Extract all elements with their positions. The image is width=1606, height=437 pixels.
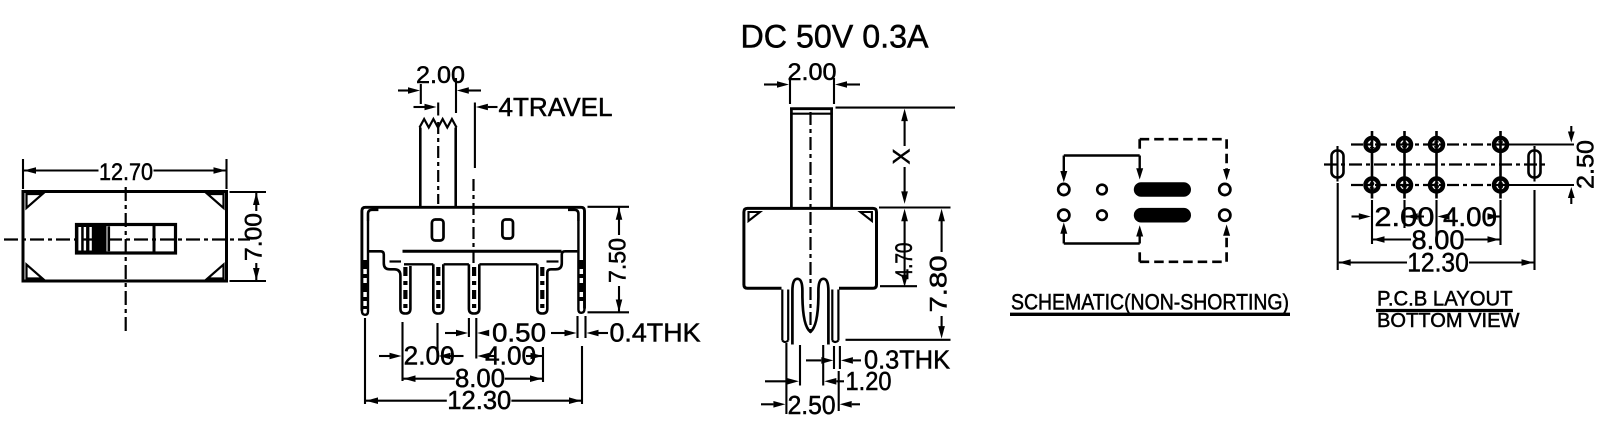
travel extension line bbox=[474, 103, 476, 169]
corner mark bottom-left bbox=[27, 265, 43, 279]
dim 12.70 line and arrows bbox=[24, 169, 99, 171]
actuator walls bbox=[790, 109, 793, 208]
svg-text:BOTTOM VIEW: BOTTOM VIEW bbox=[1377, 309, 1520, 332]
center line bbox=[809, 112, 811, 333]
dim 2.50 arrows bbox=[761, 403, 773, 405]
dashed box left stubs bbox=[1138, 139, 1141, 153]
svg-text:2.00: 2.00 bbox=[416, 62, 465, 89]
right side pin inner wall bbox=[577, 221, 579, 310]
solid wire top bbox=[1064, 154, 1140, 156]
terminal circle right bottom bbox=[1219, 210, 1230, 221]
ext line actuator top right bbox=[836, 107, 956, 109]
horizontal center line bbox=[4, 238, 250, 240]
svg-text:7.80: 7.80 bbox=[925, 256, 952, 313]
terminal circle mid top bbox=[1097, 185, 1107, 195]
svg-text:7.50: 7.50 bbox=[605, 238, 632, 283]
notch cross lines bbox=[390, 260, 402, 262]
body top + outer side walls (side pins) bbox=[362, 207, 585, 310]
dim 0.4THK extension lines bbox=[576, 316, 578, 338]
dim 12.30 ext lines bbox=[1337, 183, 1339, 270]
body center line bbox=[472, 179, 474, 270]
hole 7 (row1 col4) bbox=[1494, 138, 1507, 151]
actuator break zigzag bbox=[420, 119, 457, 128]
knob grip black section bbox=[78, 226, 107, 252]
terminal circle mid bottom bbox=[1097, 210, 1107, 220]
dim 2.50 ext lines bbox=[785, 343, 787, 414]
svg-text:SCHEMATIC(NON-SHORTING): SCHEMATIC(NON-SHORTING) bbox=[1011, 290, 1289, 315]
corner mark top-left bbox=[749, 212, 761, 221]
dim 4.70 arrows/lines bbox=[901, 209, 908, 222]
terminal circle left top bbox=[1058, 184, 1069, 195]
corner mark top-right bbox=[860, 212, 872, 221]
travel arrow left bbox=[414, 106, 426, 108]
dim 0.3THK arrows bbox=[806, 359, 821, 361]
svg-text:4.70: 4.70 bbox=[891, 243, 918, 280]
hole 2 (row2 col1) bbox=[1365, 178, 1378, 191]
pcb row1 center line bbox=[1351, 143, 1508, 145]
dim 12.30 ext lines bbox=[364, 318, 366, 404]
schematic caption underline bbox=[1010, 313, 1290, 316]
body hole right bbox=[502, 220, 513, 239]
dashed box bottom edge bbox=[1140, 260, 1227, 263]
svg-text:7: 7 bbox=[1498, 140, 1503, 151]
dim 2.00 actuator lines/arrows bbox=[398, 89, 409, 91]
left side pin inner wall bbox=[367, 221, 369, 312]
terminal circle right top bbox=[1219, 184, 1230, 195]
svg-text:7.00: 7.00 bbox=[240, 213, 267, 261]
knob inner line bbox=[108, 226, 111, 251]
row ext lines right (2.50) bbox=[1508, 143, 1574, 145]
ext line leg bottom right bbox=[846, 339, 951, 341]
svg-text:DC 50V 0.3A: DC 50V 0.3A bbox=[741, 19, 930, 55]
dim 2.00 side lines/arrows bbox=[764, 83, 777, 85]
top view body outline bbox=[23, 192, 227, 282]
svg-text:4: 4 bbox=[1402, 181, 1407, 192]
svg-text:4TRAVEL: 4TRAVEL bbox=[499, 92, 613, 122]
pin4 bbox=[469, 264, 479, 313]
ext line body top right bbox=[879, 206, 951, 208]
dim 7.00 line and arrows bbox=[255, 193, 257, 212]
body hole left bbox=[432, 220, 444, 241]
dashed box top edge bbox=[1140, 138, 1227, 141]
svg-text:8: 8 bbox=[1498, 181, 1503, 192]
dim 12.30 line and arrows bbox=[366, 397, 378, 404]
contact bar top bbox=[1134, 182, 1191, 197]
svg-text:2.00: 2.00 bbox=[404, 341, 455, 371]
actuator center line bbox=[437, 122, 439, 204]
dim 12.30 line and arrows bbox=[1339, 259, 1351, 266]
svg-text:2.50: 2.50 bbox=[1573, 140, 1600, 189]
dim 1.20 arrows bbox=[765, 380, 787, 382]
base plate top edge bbox=[403, 250, 562, 253]
hole 4 (row2 col2) bbox=[1398, 178, 1411, 191]
dim 2.00 bottom arrows bbox=[379, 355, 390, 357]
hole 5 (row1 col3) bbox=[1430, 138, 1443, 151]
svg-text:X: X bbox=[889, 149, 916, 165]
dim 4.00 ext line bbox=[542, 347, 544, 382]
knob grip white slots bbox=[78, 227, 81, 251]
corner mark bottom-right bbox=[208, 265, 224, 279]
left leg walls bbox=[781, 290, 783, 341]
dim 8.00 line and arrows bbox=[404, 375, 416, 382]
body bottom-left edge + notch + pin2 bbox=[368, 251, 410, 313]
dim 2.50 arrows bbox=[1570, 126, 1572, 132]
dim 2.00 bottom ext lines bbox=[401, 322, 403, 381]
hole column vertical lines bbox=[1371, 131, 1374, 199]
svg-text:12.30: 12.30 bbox=[447, 385, 511, 415]
svg-text:6: 6 bbox=[1434, 181, 1439, 192]
dim X line and arrows bbox=[901, 109, 908, 122]
dim 8.00 line and arrows bbox=[1373, 236, 1385, 243]
ext line body bottom right bbox=[880, 285, 917, 287]
dim 2.00 side extension lines bbox=[789, 78, 791, 104]
pin center dashes bbox=[363, 260, 367, 309]
caption underline bbox=[1376, 309, 1513, 312]
pin5 + right notch + bottom-right edge bbox=[537, 251, 577, 313]
dim 2.00 arrows bbox=[1352, 215, 1360, 217]
base plate bottom edge segments bbox=[404, 263, 433, 265]
svg-text:2: 2 bbox=[1369, 181, 1374, 192]
terminal circle left bottom bbox=[1058, 210, 1069, 221]
dim 7.00 extension lines bbox=[230, 191, 267, 193]
dim 7.50 line and arrows bbox=[618, 207, 620, 235]
svg-text:5: 5 bbox=[1434, 140, 1439, 151]
hole 6 (row2 col3) bbox=[1430, 178, 1443, 191]
svg-text:P.C.B LAYOUT: P.C.B LAYOUT bbox=[1377, 287, 1513, 311]
pcb row2 center line bbox=[1351, 184, 1508, 186]
solid wire bottom bbox=[1064, 242, 1140, 244]
corner mark top-right bbox=[208, 194, 224, 208]
dim 0.4THK arrows bbox=[551, 332, 566, 334]
corner mark top-left bbox=[27, 194, 43, 208]
travel arrow right bbox=[476, 104, 488, 111]
contact bar bottom bbox=[1134, 208, 1191, 223]
right pin tip bbox=[578, 309, 584, 313]
body outline bbox=[744, 208, 877, 288]
svg-text:2.00: 2.00 bbox=[788, 59, 837, 86]
dim 7.80 line and arrows bbox=[938, 209, 945, 222]
svg-text:2.50: 2.50 bbox=[788, 390, 836, 420]
vertical center line bbox=[125, 187, 127, 333]
dim 4.00 arrows bbox=[1438, 213, 1450, 220]
svg-text:3: 3 bbox=[1402, 140, 1407, 151]
dim 4.00 ext lines bbox=[1435, 200, 1437, 242]
svg-text:12.70: 12.70 bbox=[99, 159, 153, 186]
dim 0.50 extension lines bbox=[468, 318, 470, 337]
right leg walls bbox=[831, 290, 833, 341]
dim 7.50 extension lines bbox=[588, 206, 630, 208]
mounting slot right bbox=[1529, 151, 1541, 178]
left pin tip bbox=[362, 311, 368, 315]
dim 0.50 arrows bbox=[445, 332, 457, 334]
slider knob outline bbox=[77, 225, 176, 254]
hole 3 (row1 col2) bbox=[1398, 138, 1411, 151]
dashed box right edge bottom bbox=[1225, 236, 1228, 262]
dim 2.00 actuator extension lines bbox=[420, 84, 422, 104]
hook top-left bbox=[368, 210, 378, 221]
svg-text:12.30: 12.30 bbox=[1407, 248, 1469, 278]
actuator top edges bbox=[790, 107, 833, 110]
hook top-right bbox=[568, 210, 578, 221]
pin3 bbox=[433, 264, 443, 313]
dim 4.00 arrows bbox=[477, 353, 489, 360]
hole 1 (row1 col1) bbox=[1365, 138, 1378, 151]
contact spring prong bbox=[792, 279, 828, 345]
pcb horizontal center line bbox=[1324, 163, 1548, 165]
svg-text:0.4THK: 0.4THK bbox=[610, 318, 702, 348]
dim 0.3THK ext lines bbox=[833, 346, 835, 369]
knob divider bbox=[153, 226, 156, 253]
dim 1.20 ext lines bbox=[799, 345, 801, 386]
svg-text:1: 1 bbox=[1369, 140, 1374, 151]
mounting slot left bbox=[1332, 151, 1344, 178]
travel center tick bbox=[437, 103, 439, 116]
svg-text:1.20: 1.20 bbox=[846, 366, 892, 396]
dim 2.00 ext lines bbox=[1371, 200, 1373, 244]
hole 8 (row2 col4) bbox=[1494, 178, 1507, 191]
dashed box right edge top bbox=[1225, 139, 1228, 169]
actuator walls bbox=[419, 128, 422, 207]
dim 12.70 extension lines bbox=[22, 159, 24, 189]
